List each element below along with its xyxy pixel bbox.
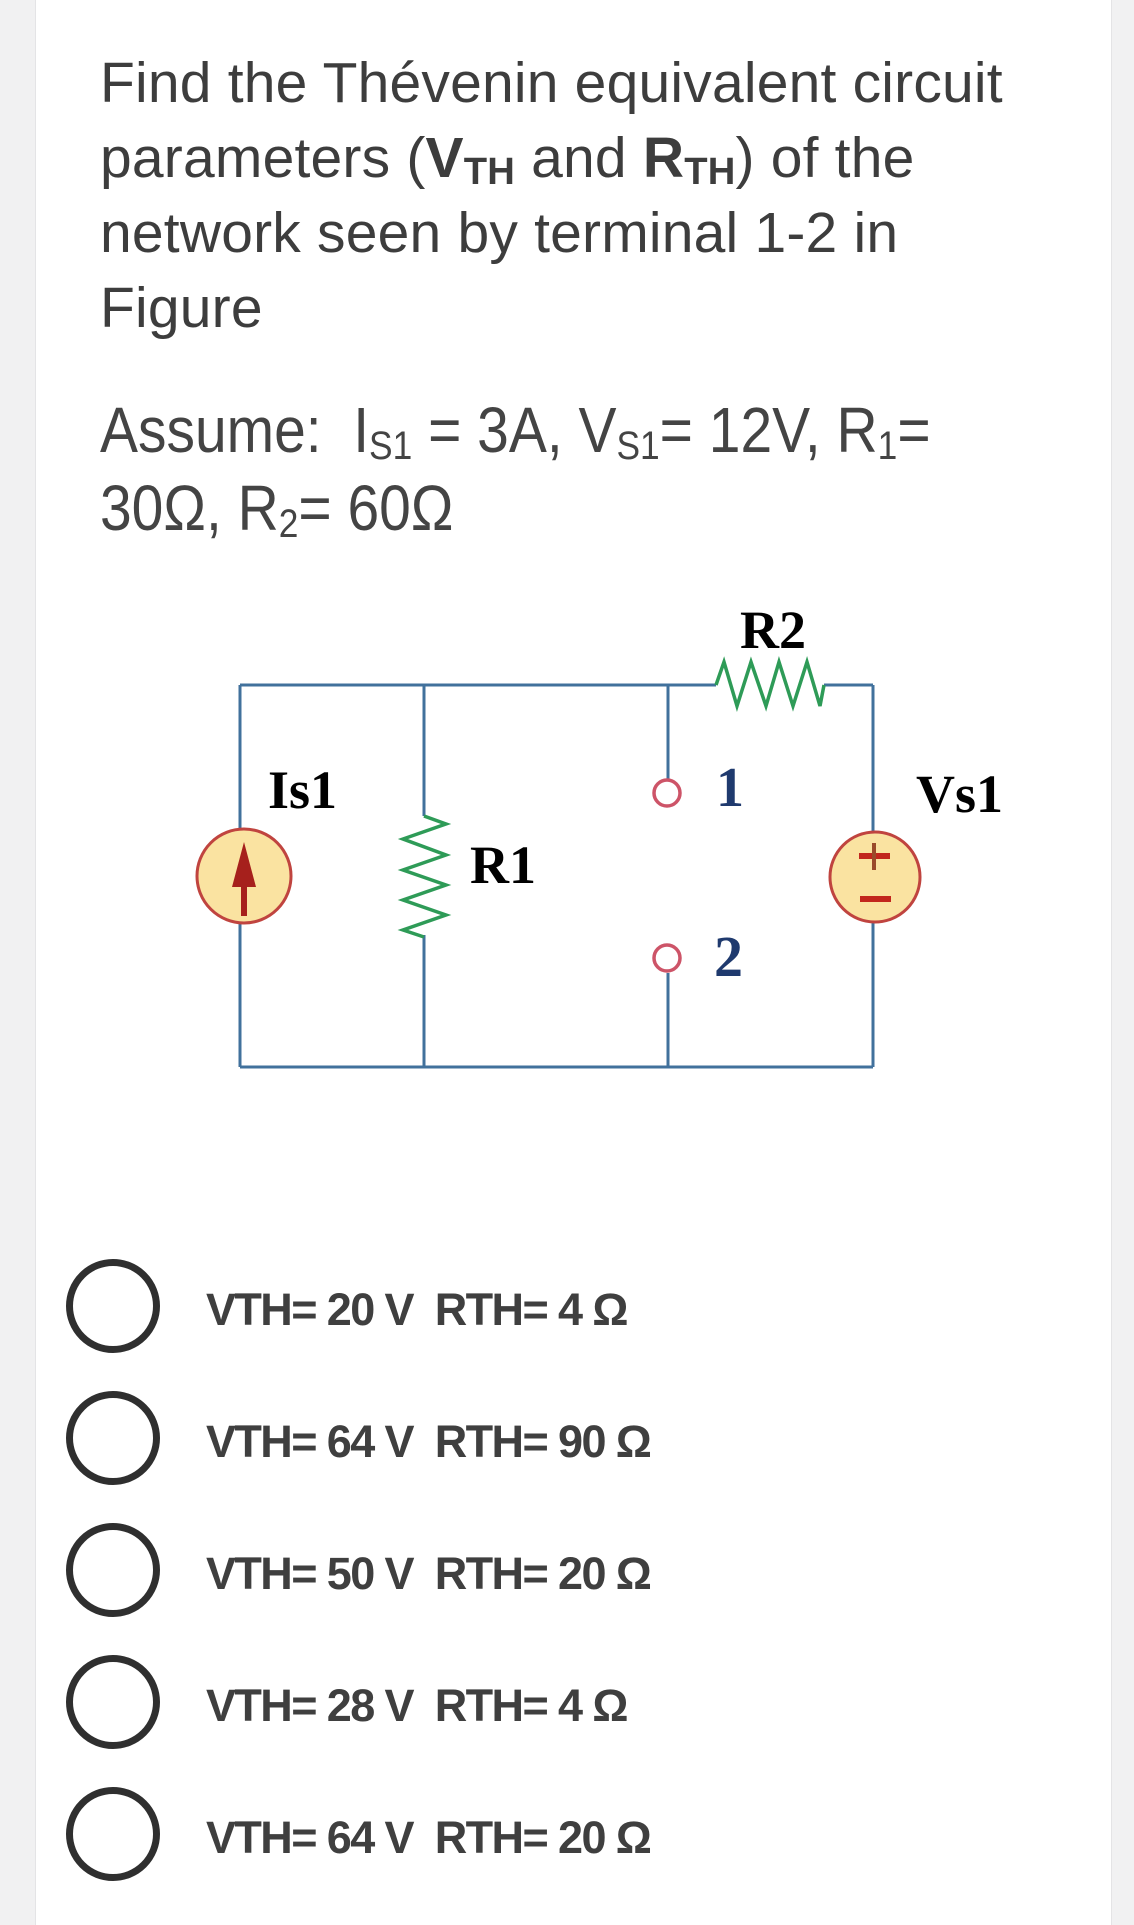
svg-text:R1: R1 [470,835,536,895]
svg-text:1: 1 [716,757,744,819]
svg-text:Is1: Is1 [268,760,337,820]
svg-text:R2: R2 [740,600,806,660]
svg-text:2: 2 [714,924,743,989]
svg-text:Vs1: Vs1 [916,764,1003,824]
